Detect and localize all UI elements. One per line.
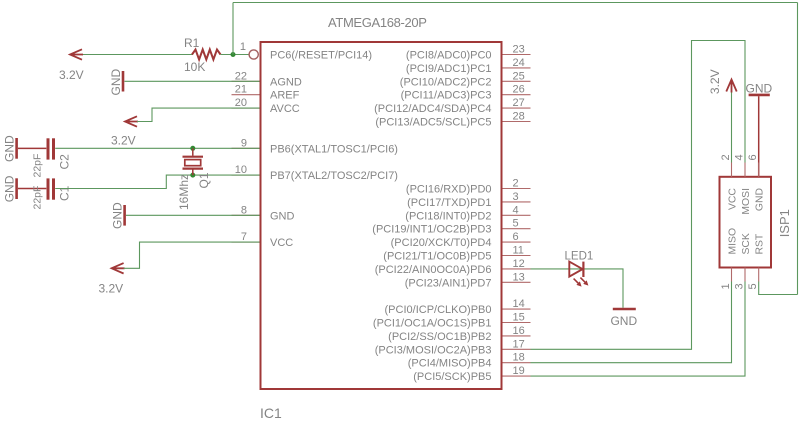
- wire XTAL1 net C2 to IC1 pin 9: [55, 147, 259, 149]
- svg-text:GND: GND: [746, 82, 773, 96]
- svg-text:2: 2: [720, 154, 732, 160]
- svg-text:ATMEGA168-20P: ATMEGA168-20P: [328, 15, 427, 30]
- wire IC1 pin 12 PD6 to LED1 and down to GND: [531, 269, 624, 308]
- svg-text:VCC: VCC: [727, 188, 738, 210]
- svg-text:GND: GND: [2, 175, 16, 202]
- ISP1 pin 6 GND: [747, 154, 765, 211]
- svg-text:16: 16: [513, 325, 525, 337]
- IC1 pin 27 (PCI12/ADC4/SDA)PC4: [374, 97, 530, 115]
- svg-text:6: 6: [513, 231, 519, 243]
- ISP1 pin 5 RST: [747, 233, 766, 289]
- LED LED1: [569, 262, 588, 287]
- IC1 pin 28 (PCI13/ADC5/SCL)PC5: [375, 111, 530, 129]
- svg-text:LED1: LED1: [565, 251, 594, 263]
- IC1 ATMEGA168-20P body: [261, 42, 502, 389]
- svg-text:C1: C1: [58, 185, 72, 201]
- wire XTAL2 net C1 to IC1 pin 10: [55, 175, 259, 188]
- svg-text:(PCI16/RXD)PD0: (PCI16/RXD)PD0: [406, 184, 492, 196]
- svg-text:(PCI20/XCK/T0)PD4: (PCI20/XCK/T0)PD4: [391, 237, 492, 249]
- IC1 pin 15 (PCI1/OC1A/OC1S)PB1: [373, 312, 531, 330]
- wire RESET net right vertical: [797, 3, 799, 295]
- svg-text:SCK: SCK: [741, 233, 752, 254]
- IC1 pin 6 (PCI20/XCK/T0)PD4: [391, 231, 531, 249]
- svg-text:27: 27: [513, 97, 525, 109]
- svg-text:5: 5: [747, 283, 759, 289]
- wire GND to IC1 pin 8: [126, 214, 260, 216]
- svg-text:MOSI: MOSI: [741, 188, 752, 215]
- IC1 pin 19 (PCI5/SCK)PB5: [413, 365, 530, 383]
- IC1 pin 9 PB6(XTAL1/TOSC1/PCI6): [232, 137, 398, 155]
- supply 3.2V arrow (ISP1 VCC): [708, 69, 737, 94]
- connector ISP1 body: [720, 177, 772, 268]
- capacitor C2: [48, 138, 54, 159]
- IC1 pin 17 (PCI3/MOSI/OC2A)PB3: [375, 338, 531, 356]
- resistor R1: [192, 50, 221, 60]
- svg-text:(PCI18/INT0)PD2: (PCI18/INT0)PD2: [405, 210, 491, 222]
- junction RESET node: [231, 52, 236, 57]
- svg-text:IC1: IC1: [260, 405, 282, 421]
- svg-text:(PCI21/T1/OC0B)PD5: (PCI21/T1/OC0B)PD5: [383, 251, 491, 263]
- svg-text:PC6(/RESET/PCI14): PC6(/RESET/PCI14): [270, 50, 372, 62]
- svg-text:9: 9: [241, 137, 247, 149]
- svg-text:22pF: 22pF: [32, 186, 44, 210]
- IC1 pin 7 VCC: [232, 231, 294, 249]
- supply 3.2V arrow (RESET pull-up): [59, 49, 84, 82]
- IC1 pin 22 AGND: [232, 70, 302, 88]
- IC1 pin 23 (PCI8/ADC0)PC0: [406, 44, 531, 62]
- svg-text:C2: C2: [58, 154, 72, 170]
- svg-text:25: 25: [513, 70, 525, 82]
- svg-text:(PCI12/ADC4/SDA)PC4: (PCI12/ADC4/SDA)PC4: [374, 103, 491, 115]
- IC1 pin 12 (PCI22/AIN0OC0A)PD6: [375, 258, 531, 276]
- ground GND symbol (LED1): [610, 309, 637, 328]
- svg-text:GND: GND: [110, 202, 124, 229]
- IC1 pin 8 GND: [232, 204, 295, 222]
- IC1 pin 13 (PCI23/AIN1)PD7: [405, 271, 531, 289]
- svg-text:21: 21: [235, 84, 247, 96]
- svg-text:AREF: AREF: [270, 90, 300, 102]
- IC1 pin 14 (PCI0/ICP/CLKO)PB0: [385, 298, 531, 316]
- svg-text:(PCI9/ADC1)PC1: (PCI9/ADC1)PC1: [406, 63, 492, 75]
- svg-text:3.2V: 3.2V: [59, 68, 84, 82]
- ISP1 pin 3 SCK: [733, 233, 752, 289]
- IC1 pin 5 (PCI19/INT1/OC2B)PD3: [372, 218, 530, 236]
- crystal Q1: [183, 148, 204, 175]
- wire R1 to IC1 pin 1: [221, 54, 250, 56]
- svg-text:(PCI2/SS/OC1B)PB2: (PCI2/SS/OC1B)PB2: [388, 331, 491, 343]
- svg-text:6: 6: [747, 154, 759, 160]
- svg-text:28: 28: [513, 111, 525, 123]
- svg-text:1: 1: [720, 283, 732, 289]
- wire RESET net top horizontal: [233, 2, 798, 4]
- svg-text:13: 13: [513, 271, 525, 283]
- IC1 pin 1 inverting bubble: [249, 50, 258, 59]
- svg-text:4: 4: [734, 154, 746, 160]
- svg-text:(PCI23/AIN1)PD7: (PCI23/AIN1)PD7: [405, 277, 492, 289]
- wire AVCC to IC1 pin 20: [137, 108, 260, 121]
- svg-text:8: 8: [241, 204, 247, 216]
- svg-text:(PCI8/ADC0)PC0: (PCI8/ADC0)PC0: [406, 50, 492, 62]
- IC1 pin 1 PC6(/RESET/PCI14): [240, 41, 372, 62]
- wire MISO net IC1 pin 18 to ISP1 pin 1: [531, 282, 732, 363]
- IC1 pin 24 (PCI9/ADC1)PC1: [406, 57, 531, 75]
- svg-text:PB6(XTAL1/TOSC1/PCI6): PB6(XTAL1/TOSC1/PCI6): [270, 143, 398, 155]
- IC1 pin 10 PB7(XTAL2/TOSC2/PCI7): [232, 164, 398, 182]
- ground GND symbol (C1): [2, 175, 16, 202]
- ground GND symbol (C2): [2, 135, 16, 162]
- supply 3.2V arrow (VCC): [99, 263, 125, 295]
- svg-text:(PCI4/MISO)PB4: (PCI4/MISO)PB4: [408, 358, 492, 370]
- svg-text:18: 18: [513, 352, 525, 364]
- svg-text:3.2V: 3.2V: [111, 134, 136, 148]
- svg-text:R1: R1: [184, 36, 200, 50]
- svg-text:20: 20: [235, 97, 247, 109]
- wire MOSI net IC1 pin 17 to ISP1 pin 4: [531, 41, 746, 350]
- svg-text:(PCI10/ADC2)PC2: (PCI10/ADC2)PC2: [400, 76, 492, 88]
- junction XTAL1 at Q1 top: [190, 146, 195, 151]
- wire GND to C1: [18, 188, 46, 190]
- svg-text:10: 10: [235, 164, 247, 176]
- IC1 pin 2 (PCI16/RXD)PD0: [406, 178, 531, 196]
- svg-text:AGND: AGND: [270, 76, 302, 88]
- svg-text:(PCI0/ICP/CLKO)PB0: (PCI0/ICP/CLKO)PB0: [385, 304, 492, 316]
- wire SCK net IC1 pin 19 to ISP1 pin 3: [531, 282, 746, 377]
- svg-text:GND: GND: [270, 210, 295, 222]
- svg-text:AVCC: AVCC: [270, 103, 300, 115]
- svg-text:15: 15: [513, 312, 525, 324]
- svg-text:PB7(XTAL2/TOSC2/PCI7): PB7(XTAL2/TOSC2/PCI7): [270, 170, 398, 182]
- svg-text:GND: GND: [755, 188, 766, 211]
- svg-text:7: 7: [241, 231, 247, 243]
- svg-text:(PCI13/ADC5/SCL)PC5: (PCI13/ADC5/SCL)PC5: [375, 117, 491, 129]
- wire VCC to IC1 pin 7: [124, 242, 260, 268]
- wire RESET net to ISP1 pin 5: [759, 282, 798, 295]
- IC1 pin 16 (PCI2/SS/OC1B)PB2: [388, 325, 530, 343]
- IC1 pin 11 (PCI21/T1/OC0B)PD5: [383, 245, 530, 263]
- svg-text:GND: GND: [610, 314, 637, 328]
- svg-text:10K: 10K: [184, 60, 205, 74]
- svg-text:24: 24: [513, 57, 525, 69]
- ground GND symbol (ISP1 pin 6): [746, 82, 773, 96]
- IC1 pin 4 (PCI18/INT0)PD2: [405, 204, 530, 222]
- capacitor C1: [48, 178, 54, 199]
- svg-text:RST: RST: [755, 233, 766, 254]
- wire GND to ISP1 pin 6: [758, 96, 760, 176]
- svg-text:GND: GND: [109, 69, 123, 96]
- svg-text:17: 17: [513, 338, 525, 350]
- IC1 pin 3 (PCI17/TXD)PD1: [407, 191, 530, 209]
- svg-text:(PCI19/INT1/OC2B)PD3: (PCI19/INT1/OC2B)PD3: [372, 224, 491, 236]
- svg-text:14: 14: [513, 298, 525, 310]
- svg-text:3: 3: [513, 191, 519, 203]
- svg-text:(PCI5/SCK)PB5: (PCI5/SCK)PB5: [413, 371, 491, 383]
- svg-text:Q1: Q1: [197, 172, 211, 188]
- svg-text:GND: GND: [2, 135, 16, 162]
- svg-text:22pF: 22pF: [32, 154, 44, 178]
- svg-text:3.2V: 3.2V: [708, 69, 722, 94]
- svg-text:3: 3: [733, 283, 745, 289]
- svg-text:(PCI1/OC1A/OC1S)PB1: (PCI1/OC1A/OC1S)PB1: [373, 318, 492, 330]
- svg-text:3.2V: 3.2V: [99, 282, 124, 296]
- ISP1 pin 1 MISO: [720, 228, 739, 290]
- ISP1 pin 4 MOSI: [734, 154, 752, 214]
- ground GND symbol (IC1 pin 8): [110, 202, 124, 229]
- ISP1 pin 2 VCC: [720, 154, 738, 210]
- svg-text:(PCI11/ADC3)PC3: (PCI11/ADC3)PC3: [401, 90, 492, 102]
- svg-text:12: 12: [513, 258, 525, 270]
- svg-text:23: 23: [513, 44, 525, 56]
- IC1 pin 26 (PCI11/ADC3)PC3: [401, 84, 531, 102]
- svg-text:VCC: VCC: [270, 237, 293, 249]
- svg-text:2: 2: [513, 178, 519, 190]
- svg-text:22: 22: [235, 70, 247, 82]
- IC1 pin 20 AVCC: [232, 97, 300, 115]
- IC1 pin 21 AREF: [232, 84, 300, 102]
- svg-text:19: 19: [513, 365, 525, 377]
- svg-text:26: 26: [513, 84, 525, 96]
- svg-text:(PCI22/AIN0OC0A)PD6: (PCI22/AIN0OC0A)PD6: [375, 264, 492, 276]
- wire 3.2V supply to resistor R1: [82, 54, 193, 56]
- svg-text:1: 1: [240, 41, 246, 53]
- IC1 pin 25 (PCI10/ADC2)PC2: [400, 70, 531, 88]
- junction XTAL2 at Q1 bottom: [190, 173, 195, 178]
- svg-text:11: 11: [513, 245, 524, 257]
- svg-text:(PCI17/TXD)PD1: (PCI17/TXD)PD1: [407, 197, 491, 209]
- ground GND symbol (AGND): [109, 69, 123, 96]
- wire RESET net up from junction: [232, 3, 234, 55]
- wire AGND to IC1 pin 22: [125, 80, 260, 82]
- svg-text:(PCI3/MOSI/OC2A)PB3: (PCI3/MOSI/OC2A)PB3: [375, 344, 492, 356]
- wire 3.2V to ISP1 pin 2: [731, 93, 733, 163]
- svg-text:MISO: MISO: [727, 228, 738, 255]
- supply 3.2V arrow (AVCC): [111, 116, 138, 147]
- svg-text:5: 5: [513, 218, 519, 230]
- svg-text:16Mhz: 16Mhz: [177, 174, 191, 210]
- IC1 pin 18 (PCI4/MISO)PB4: [408, 352, 531, 370]
- svg-text:4: 4: [513, 204, 519, 216]
- wire GND to C2: [18, 147, 46, 149]
- svg-text:ISP1: ISP1: [777, 209, 792, 237]
